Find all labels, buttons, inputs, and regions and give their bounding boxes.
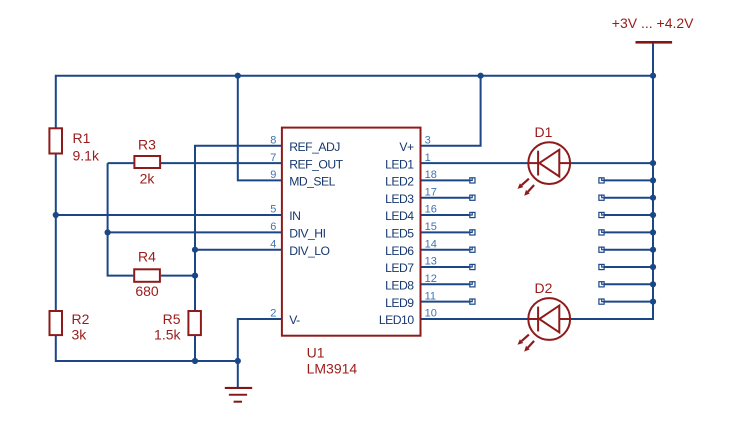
svg-text:680: 680 <box>135 283 159 299</box>
svg-text:17: 17 <box>425 186 437 198</box>
svg-text:11: 11 <box>425 290 436 302</box>
svg-text:3k: 3k <box>72 327 88 343</box>
svg-text:15: 15 <box>425 221 437 233</box>
svg-text:R3: R3 <box>138 137 156 153</box>
svg-text:LED6: LED6 <box>385 244 414 258</box>
svg-text:LED3: LED3 <box>385 192 414 206</box>
svg-text:LED9: LED9 <box>385 296 414 310</box>
svg-text:5: 5 <box>270 204 276 216</box>
svg-text:14: 14 <box>425 238 437 250</box>
svg-text:2: 2 <box>270 308 276 320</box>
svg-text:LED10: LED10 <box>379 313 414 327</box>
svg-text:V+: V+ <box>399 140 414 154</box>
svg-text:U1: U1 <box>307 345 325 361</box>
svg-text:D1: D1 <box>535 124 553 140</box>
svg-text:6: 6 <box>270 221 276 233</box>
svg-text:LED5: LED5 <box>385 227 414 241</box>
svg-text:R1: R1 <box>73 130 91 146</box>
svg-text:13: 13 <box>425 256 437 268</box>
svg-text:LM3914: LM3914 <box>307 360 358 376</box>
svg-text:REF_ADJ: REF_ADJ <box>289 140 340 154</box>
svg-text:7: 7 <box>270 152 276 164</box>
svg-text:LED8: LED8 <box>385 279 414 293</box>
svg-text:3: 3 <box>425 135 431 147</box>
svg-text:IN: IN <box>289 209 300 223</box>
svg-text:MD_SEL: MD_SEL <box>289 175 335 189</box>
svg-text:LED7: LED7 <box>385 261 414 275</box>
svg-text:REF_OUT: REF_OUT <box>289 157 343 171</box>
svg-text:1.5k: 1.5k <box>154 327 181 343</box>
svg-text:D2: D2 <box>535 280 553 296</box>
svg-text:LED1: LED1 <box>385 157 414 171</box>
svg-text:LED2: LED2 <box>385 175 414 189</box>
svg-text:R5: R5 <box>163 311 181 327</box>
svg-text:16: 16 <box>425 204 437 216</box>
svg-text:LED4: LED4 <box>385 209 414 223</box>
svg-text:+3V ... +4.2V: +3V ... +4.2V <box>612 15 694 31</box>
svg-text:R2: R2 <box>72 311 90 327</box>
svg-text:9.1k: 9.1k <box>73 147 100 163</box>
svg-text:2k: 2k <box>140 171 156 187</box>
svg-text:4: 4 <box>270 238 276 250</box>
svg-text:8: 8 <box>270 135 276 147</box>
svg-text:DIV_LO: DIV_LO <box>289 244 329 258</box>
svg-text:9: 9 <box>270 169 276 181</box>
svg-text:DIV_HI: DIV_HI <box>289 227 325 241</box>
svg-text:18: 18 <box>425 169 437 181</box>
svg-text:R4: R4 <box>138 249 156 265</box>
svg-text:V-: V- <box>289 313 300 327</box>
svg-text:12: 12 <box>425 273 437 285</box>
svg-text:10: 10 <box>425 308 437 320</box>
svg-text:1: 1 <box>425 152 431 164</box>
